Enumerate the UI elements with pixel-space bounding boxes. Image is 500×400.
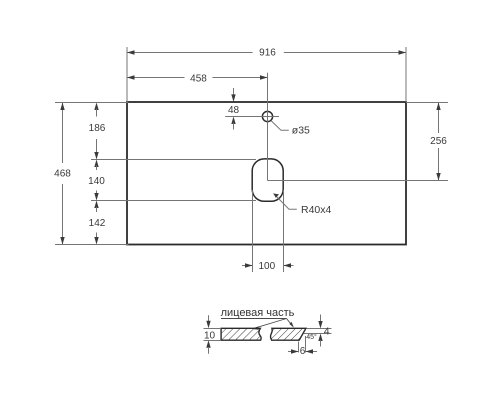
- leader R40x4: [274, 194, 332, 217]
- dimension 48: [228, 88, 240, 130]
- dimension 140: [88, 160, 105, 201]
- svg-text:10: 10: [204, 331, 216, 342]
- countertop outline (top view): [127, 102, 406, 245]
- svg-text:458: 458: [190, 73, 207, 84]
- svg-text:468: 468: [54, 169, 71, 180]
- extension line top-right corner: [406, 102, 448, 104]
- leader to left section piece: [252, 319, 287, 330]
- svg-text:лицевая часть: лицевая часть: [221, 307, 295, 319]
- crosshair horizontal through faucet hole: [225, 116, 279, 118]
- extension line bottom-left corner: [55, 244, 129, 246]
- svg-text:48: 48: [228, 105, 240, 116]
- dimension 100: [242, 190, 294, 272]
- leader ø35: [271, 121, 310, 137]
- section right piece with 45° chamfer (hatched): [270, 328, 305, 340]
- dimension 142: [89, 201, 106, 245]
- extension line x=127 for 916/458: [126, 47, 128, 102]
- dimension 186: [89, 103, 106, 160]
- svg-text:100: 100: [258, 261, 275, 272]
- extension line left at cutout top: [91, 159, 256, 161]
- extension line x=406 for 916: [405, 47, 407, 102]
- svg-text:ø35: ø35: [292, 125, 310, 137]
- svg-text:256: 256: [430, 136, 447, 147]
- dimension 468: [54, 103, 71, 245]
- svg-text:186: 186: [89, 123, 106, 134]
- svg-text:142: 142: [89, 218, 106, 229]
- dimension 6 (chamfer run): [288, 336, 317, 357]
- dimension 458: [127, 73, 268, 84]
- dimension 256: [430, 103, 447, 181]
- label 45°: [306, 333, 317, 341]
- svg-text:6: 6: [300, 346, 306, 357]
- faucet hole ø35: [262, 111, 272, 121]
- dimension 916: [127, 48, 406, 59]
- basin cutout R40x4: [252, 159, 283, 201]
- extension line left at cutout bottom: [91, 200, 256, 202]
- leader to right section piece: [287, 319, 294, 328]
- svg-text:R40x4: R40x4: [301, 204, 332, 216]
- svg-text:916: 916: [259, 48, 276, 59]
- svg-text:45°: 45°: [306, 333, 317, 341]
- svg-text:4: 4: [324, 326, 330, 338]
- section left piece (hatched): [221, 328, 261, 340]
- dimension 10 (section thickness): [204, 315, 222, 354]
- label лицевая часть: [221, 307, 295, 319]
- dimension 4 (chamfer face): [304, 315, 332, 347]
- centerline vertical through faucet hole and cutout: [267, 73, 269, 181]
- extension line top-left corner: [55, 102, 129, 104]
- svg-text:140: 140: [88, 176, 105, 187]
- centerline horizontal from cutout center to right: [268, 180, 449, 182]
